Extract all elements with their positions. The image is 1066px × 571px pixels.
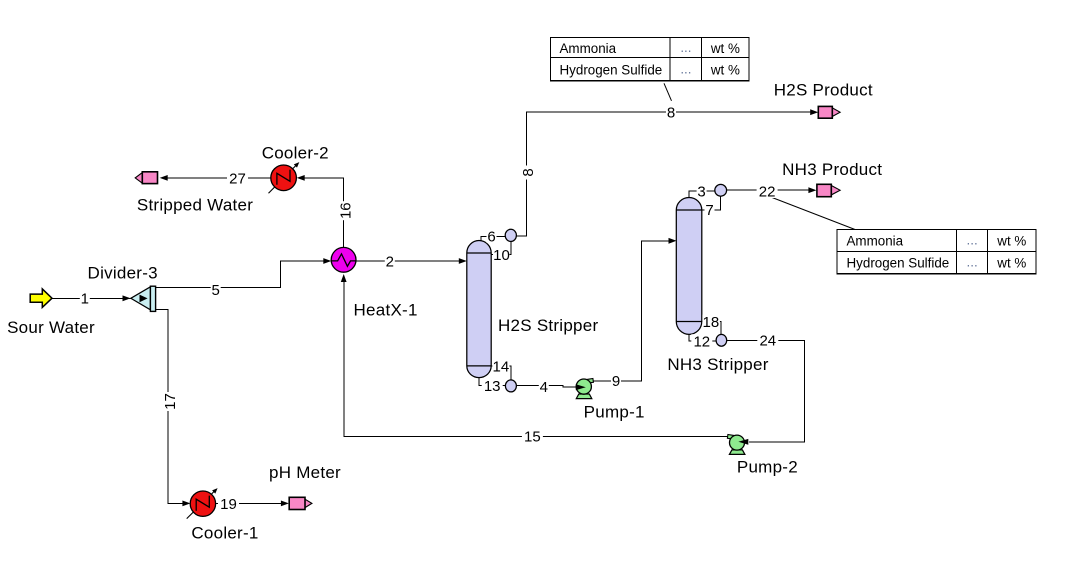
svg-text:wt %: wt % (996, 234, 1026, 249)
label stream 17 vertical (162, 392, 179, 411)
wire stream 5 (156, 261, 327, 287)
label stream 15 (522, 429, 543, 446)
column NH3 Stripper (676, 197, 702, 334)
wire stream 10 (491, 242, 511, 255)
cooler Cooler-2 (269, 162, 300, 193)
svg-text:Divider-3: Divider-3 (88, 263, 158, 282)
svg-text:HeatX-1: HeatX-1 (354, 301, 418, 320)
node junction E1 (505, 229, 516, 241)
arrowhead stream 5 into HeatX-1 (323, 258, 331, 264)
table composition 2 (837, 230, 1036, 274)
svg-text:6: 6 (487, 229, 495, 246)
wire stream 14 (491, 366, 511, 380)
label stream 8 horizontal (666, 105, 676, 122)
cooler Cooler-1 (187, 488, 218, 518)
svg-text:Hydrogen Sulfide: Hydrogen Sulfide (847, 256, 950, 271)
label stream 10 (493, 247, 510, 264)
svg-text:15: 15 (524, 429, 541, 446)
svg-text:5: 5 (212, 282, 220, 299)
heat exchanger HeatX-1 (331, 247, 356, 272)
arrowhead stream 8 into H2S Product (810, 109, 818, 115)
label stream 13 (482, 378, 503, 395)
wire stream 13 (479, 378, 505, 386)
svg-text:...: ... (967, 255, 978, 270)
arrowhead stream 17 into Cooler-1 (182, 501, 190, 507)
pump Pump-2 (727, 435, 748, 455)
svg-text:Ammonia: Ammonia (560, 41, 617, 56)
label stream 12 (691, 333, 712, 350)
label stream 14 (492, 358, 509, 375)
svg-text:10: 10 (493, 247, 510, 264)
table composition 1 (550, 38, 749, 81)
label stream 24 (757, 333, 778, 350)
svg-text:wt %: wt % (710, 41, 740, 56)
product arrow Stripped Water (135, 172, 157, 184)
column H2S Stripper (467, 240, 491, 377)
label stream 9 (611, 373, 621, 390)
svg-text:14: 14 (493, 358, 510, 375)
product arrow pH Meter (289, 497, 312, 509)
svg-text:17: 17 (162, 393, 179, 410)
svg-text:24: 24 (759, 333, 776, 350)
wire stream 22 (727, 189, 813, 191)
arrowhead stream 16 into Cooler-2 (297, 175, 305, 181)
svg-text:Cooler-1: Cooler-1 (191, 523, 258, 542)
svg-text:8: 8 (667, 105, 675, 122)
label stream 19 (218, 496, 239, 513)
wire stream 24 (727, 340, 805, 442)
svg-text:pH Meter: pH Meter (269, 463, 341, 482)
svg-text:3: 3 (697, 183, 705, 200)
wire stream 4 (516, 386, 578, 388)
svg-text:Pump-1: Pump-1 (584, 402, 645, 421)
wire stream 27 (164, 177, 271, 179)
label stream 2 (385, 253, 395, 270)
svg-text:Sour Water: Sour Water (7, 318, 95, 337)
node junction E3 (715, 184, 727, 196)
svg-text:27: 27 (229, 170, 246, 187)
svg-text:...: ... (967, 233, 978, 248)
wire stream 3 (689, 191, 715, 200)
wire stream 15 (344, 277, 731, 436)
wire stream 17 (156, 310, 187, 504)
svg-text:4: 4 (540, 379, 548, 396)
arrowhead stream 9 into NH3 Stripper (669, 238, 677, 244)
wire stream 16 (301, 178, 344, 248)
svg-text:19: 19 (220, 496, 237, 513)
wire stream 19 (216, 502, 285, 504)
stream number labels (80, 105, 779, 513)
wire stream 8 (516, 112, 814, 236)
arrowhead stream 19 into pH Meter (281, 501, 289, 507)
wire stream 18 (702, 322, 721, 335)
wire stream 6 (481, 236, 505, 243)
divider Divider-3 (131, 286, 156, 311)
label stream 8 vertical (520, 166, 537, 180)
callout line table 1 (664, 83, 672, 101)
svg-text:13: 13 (484, 378, 501, 395)
pump Pump-1 (576, 379, 594, 399)
label stream 7 (705, 202, 715, 219)
svg-text:NH3 Product: NH3 Product (782, 160, 882, 179)
wire stream 9 (593, 241, 672, 381)
svg-text:Pump-2: Pump-2 (737, 457, 798, 476)
wire stream 2 (356, 260, 463, 262)
arrowhead stream 2 into H2S Stripper (459, 258, 467, 264)
callout line table 2 (770, 197, 856, 230)
arrowhead stream 27 into Stripped Water (160, 175, 168, 181)
svg-text:2: 2 (386, 253, 394, 270)
label stream 4 (539, 379, 549, 396)
svg-text:9: 9 (612, 373, 620, 390)
arrowhead stream 22 into NH3 Product (808, 187, 816, 193)
arrowhead stream 15 into HeatX-1 bottom (341, 274, 347, 282)
wire stream 1 (52, 297, 131, 299)
svg-text:7: 7 (705, 202, 713, 219)
svg-text:1: 1 (81, 291, 89, 308)
svg-text:...: ... (680, 40, 691, 55)
label stream 1 (80, 291, 90, 308)
wire stream 12 (689, 334, 716, 341)
node junction E4 (716, 334, 727, 346)
svg-text:H2S Product: H2S Product (774, 80, 873, 99)
svg-text:22: 22 (759, 184, 776, 201)
svg-text:Hydrogen Sulfide: Hydrogen Sulfide (560, 63, 663, 78)
svg-text:H2S Stripper: H2S Stripper (498, 316, 598, 335)
wire stream 7 (702, 196, 721, 210)
svg-text:18: 18 (703, 314, 720, 331)
label stream 22 (757, 184, 778, 201)
svg-text:Cooler-2: Cooler-2 (262, 143, 329, 162)
svg-text:16: 16 (337, 202, 354, 219)
label stream 5 (211, 282, 221, 299)
svg-text:12: 12 (693, 333, 710, 350)
product arrow NH3 Product (817, 184, 840, 196)
equipment name labels (7, 80, 882, 542)
product arrow H2S Product (818, 106, 840, 118)
label stream 6 (487, 229, 497, 246)
svg-text:Ammonia: Ammonia (847, 234, 904, 249)
label stream 27 (227, 170, 248, 187)
svg-text:...: ... (680, 62, 691, 77)
svg-text:8: 8 (520, 168, 537, 176)
svg-text:wt %: wt % (710, 63, 740, 78)
svg-text:NH3 Stripper: NH3 Stripper (667, 355, 768, 374)
label stream 16 vertical (337, 201, 354, 220)
svg-text:Stripped Water: Stripped Water (137, 195, 253, 214)
label stream 18 (702, 314, 720, 331)
arrowhead stream 1 into divider (123, 295, 131, 301)
node junction E2 (505, 380, 516, 392)
label stream 3 (697, 183, 707, 200)
svg-text:wt %: wt % (996, 256, 1026, 271)
feed arrow Sour Water (30, 289, 52, 308)
